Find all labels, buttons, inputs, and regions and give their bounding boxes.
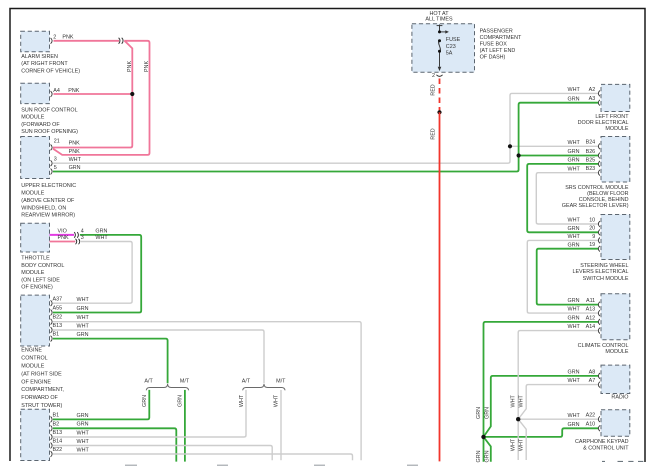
node pink junction: [130, 92, 134, 96]
wire WHT B23 to pin 10: [536, 173, 598, 224]
passenger compartment fuse box: [412, 24, 475, 72]
svg-text:GRN: GRN: [568, 149, 580, 155]
svg-text:GRN: GRN: [568, 226, 580, 232]
radio box: [601, 365, 630, 393]
wire VIO throttle body pin: [50, 234, 75, 236]
svg-text:(AT LEFT END: (AT LEFT END: [480, 48, 516, 54]
svg-text:CLIMATE CONTROL: CLIMATE CONTROL: [578, 343, 629, 349]
svg-text:5A: 5A: [446, 51, 453, 57]
connector symbol )) on alarm wire: [119, 38, 123, 44]
svg-text:WHT: WHT: [519, 394, 525, 407]
svg-text:B26: B26: [586, 149, 596, 155]
svg-text:GRN: GRN: [476, 407, 482, 419]
svg-text:GRN: GRN: [568, 96, 580, 102]
svg-text:GEAR SELECTOR LEVER): GEAR SELECTOR LEVER): [562, 203, 629, 209]
wire RED solid down to bottom: [439, 112, 441, 461]
svg-text:WHT: WHT: [511, 394, 517, 407]
svg-text:WINDSHIELD, ON: WINDSHIELD, ON: [21, 205, 66, 211]
svg-text:WHT: WHT: [568, 140, 581, 146]
svg-text:& CONTROL UNIT: & CONTROL UNIT: [583, 445, 629, 451]
svg-text:M/T: M/T: [180, 378, 190, 384]
svg-text:(AT RIGHT FRONT: (AT RIGHT FRONT: [21, 61, 68, 67]
svg-text:PNK: PNK: [127, 61, 133, 72]
svg-text:MODULE: MODULE: [605, 349, 628, 355]
svg-text:4: 4: [81, 228, 84, 234]
wire PNK throttle body pin: [50, 241, 76, 243]
svg-text:OF ENGINE): OF ENGINE): [21, 285, 53, 291]
svg-text:WHT: WHT: [511, 438, 517, 451]
svg-text:STRUT TOWER): STRUT TOWER): [21, 403, 62, 409]
svg-text:PNK: PNK: [69, 149, 80, 155]
svg-text:A8: A8: [589, 369, 596, 375]
svg-text:A4: A4: [53, 88, 60, 94]
wire GRN ECM-B pin B2 down to bottom module: [53, 428, 176, 461]
svg-text:(AT RIGHT SIDE: (AT RIGHT SIDE: [21, 371, 62, 377]
svg-text:B24: B24: [586, 140, 596, 146]
wire sunroof pin A4 to junction: [54, 93, 133, 95]
svg-text:A11: A11: [586, 298, 595, 304]
svg-text:GRN: GRN: [95, 228, 107, 234]
svg-text:B22: B22: [53, 447, 63, 453]
wire RED dashed from fuse: [439, 79, 441, 113]
svg-text:WHT: WHT: [77, 323, 90, 329]
wire WHT throttle pin 3 to ECM A37: [53, 242, 132, 304]
wire WHT A7 down merging into junction then out to bottom: [518, 385, 598, 460]
svg-text:(BELOW FLOOR: (BELOW FLOOR: [587, 191, 628, 197]
svg-text:WHT: WHT: [274, 394, 280, 407]
wire GRN A12 down to green junction and bottom: [484, 322, 599, 462]
svg-text:GRN: GRN: [568, 298, 580, 304]
fork 2 brace A/T M/T: [243, 384, 286, 390]
label steering wheel levers electrical switch module: [572, 263, 628, 282]
svg-text:GRN: GRN: [476, 450, 482, 462]
svg-text:GRN: GRN: [568, 422, 580, 428]
svg-text:UPPER ELECTRONIC: UPPER ELECTRONIC: [21, 183, 76, 189]
svg-text:SWITCH MODULE: SWITCH MODULE: [583, 276, 629, 282]
svg-text:ALL TIMES: ALL TIMES: [425, 17, 453, 23]
svg-text:GRN: GRN: [484, 450, 490, 462]
steering wheel levers electrical switch module box: [601, 215, 630, 260]
wire GRN fork1 A/T branch down to ECM-B pin B1: [53, 390, 149, 420]
svg-text:B2: B2: [53, 421, 60, 427]
svg-text:MODULE: MODULE: [21, 364, 44, 370]
wire WHT junction to carphone A22: [518, 418, 598, 420]
svg-text:FUSE BOX: FUSE BOX: [480, 42, 508, 48]
svg-text:A7: A7: [589, 378, 596, 384]
svg-text:ALARM SIREN: ALARM SIREN: [21, 54, 58, 60]
svg-text:OF DASH): OF DASH): [480, 55, 506, 61]
alarm siren box: [21, 31, 50, 52]
svg-text:MODULE: MODULE: [605, 126, 628, 132]
svg-text:GRN: GRN: [568, 242, 580, 248]
svg-text:A13: A13: [586, 307, 596, 313]
svg-text:MODULE: MODULE: [21, 270, 44, 276]
wire GRN ECM B1 to fork 1 stem: [53, 339, 168, 384]
label upper electronic module: [21, 183, 76, 219]
wire connector to PNK vertical 2 down to UEM second pin wire: [53, 41, 150, 155]
svg-text:GRN: GRN: [142, 395, 148, 407]
svg-text:A3: A3: [589, 96, 596, 102]
node WHT bus junction: [516, 417, 520, 421]
svg-text:PASSENGER: PASSENGER: [480, 29, 513, 35]
wire WHT ECM-B pin B14 down to bottom module: [53, 446, 272, 461]
connector symbol )) on VIO/GRN wire: [74, 232, 78, 238]
svg-text:WHT: WHT: [568, 324, 581, 330]
svg-text:WHT: WHT: [69, 157, 82, 163]
node GRN bus junction: [481, 435, 485, 439]
svg-text:B1: B1: [53, 331, 60, 337]
feed arrow right: [440, 31, 446, 33]
label sun roof control module: [21, 107, 78, 135]
label climate control module: [578, 343, 629, 355]
svg-text:WHT: WHT: [519, 438, 525, 451]
svg-text:VIO: VIO: [58, 228, 67, 234]
wire GRN A8 down merging into junction then out to bottom: [484, 376, 599, 462]
svg-text:B1: B1: [53, 413, 60, 419]
svg-text:GRN: GRN: [77, 413, 89, 419]
svg-text:MODULE: MODULE: [21, 115, 44, 121]
node GRN B26 junction: [517, 153, 521, 157]
svg-text:CONTROL: CONTROL: [21, 356, 47, 362]
wire GRN junction to carphone A10: [484, 428, 599, 437]
wire WHT ECM B13 to fork 2 stem: [53, 330, 264, 383]
svg-text:RED: RED: [431, 84, 437, 95]
svg-text:GRN: GRN: [568, 158, 580, 164]
label srs control module: [562, 185, 629, 209]
svg-text:3: 3: [81, 235, 84, 241]
bottom cut-off module box (right): [602, 460, 643, 462]
svg-text:WHT: WHT: [95, 235, 108, 241]
svg-text:GRN: GRN: [177, 395, 183, 407]
svg-text:2: 2: [53, 35, 56, 41]
svg-text:A12: A12: [586, 315, 596, 321]
svg-text:19: 19: [589, 242, 595, 248]
svg-text:WHT: WHT: [568, 218, 581, 224]
svg-text:A14: A14: [586, 324, 596, 330]
svg-text:GRN: GRN: [568, 370, 580, 376]
svg-text:CORNER OF VEHICLE): CORNER OF VEHICLE): [21, 68, 80, 74]
svg-text:(FORWARD OF: (FORWARD OF: [21, 122, 60, 128]
svg-text:COMPARTMENT,: COMPARTMENT,: [21, 387, 64, 393]
wire WHT pin 9 to climate A13: [527, 240, 598, 313]
svg-text:B22: B22: [53, 314, 63, 320]
carphone keypad & control unit box: [601, 410, 630, 436]
wire GRN pin 19 to climate A11: [537, 249, 599, 305]
connector symbol )) on PNK/WHT wire: [76, 239, 80, 245]
svg-text:WHT: WHT: [77, 297, 90, 303]
brackets right column: [598, 91, 600, 97]
svg-text:B14: B14: [53, 439, 63, 445]
label throttle body control module: [21, 256, 64, 291]
svg-text:WHT: WHT: [77, 430, 90, 436]
svg-text:A2: A2: [589, 87, 596, 93]
svg-text:CARPHONE KEYPAD: CARPHONE KEYPAD: [575, 439, 629, 445]
svg-text:(ON LEFT SIDE: (ON LEFT SIDE: [21, 277, 60, 283]
svg-text:A/T: A/T: [144, 378, 153, 384]
svg-text:GRN: GRN: [484, 407, 490, 419]
svg-text:A10: A10: [586, 422, 596, 428]
svg-text:M/T: M/T: [276, 378, 286, 384]
svg-text:REARVIEW MIRROR): REARVIEW MIRROR): [21, 213, 75, 219]
fork 1 brace A/T M/T: [146, 384, 189, 390]
label alarm siren: [21, 54, 80, 74]
engine control module connector B box: [21, 409, 50, 460]
svg-text:SUN ROOF OPENING): SUN ROOF OPENING): [21, 129, 78, 135]
label engine control module: [21, 348, 64, 409]
wire GRN B25 to pin 20: [527, 164, 598, 232]
svg-text:LEVERS ELECTRICAL: LEVERS ELECTRICAL: [572, 269, 628, 275]
sun roof control module box: [21, 83, 50, 103]
wire GRN B26 row: [519, 155, 599, 157]
upper electronic module box: [21, 137, 50, 179]
svg-text:PNK: PNK: [68, 88, 79, 94]
svg-text:A22: A22: [586, 413, 596, 419]
throttle body control module box: [21, 223, 50, 252]
label carphone keypad & control unit: [575, 439, 629, 452]
svg-text:RED: RED: [431, 128, 437, 139]
brackets left column: [51, 38, 53, 44]
wire WHT A14 down to white junction and bottom: [518, 331, 598, 460]
svg-text:B13: B13: [53, 323, 63, 329]
wire pin2 alarm siren to connector: [54, 40, 120, 42]
svg-text:WHT: WHT: [239, 394, 245, 407]
svg-text:B13: B13: [53, 430, 63, 436]
bottom cut-off module box (middle): [125, 464, 418, 466]
wire WHT B24 row: [510, 145, 599, 147]
wire WHT ECM-B pin B22 down to bottom module: [53, 454, 353, 460]
svg-text:C23: C23: [446, 44, 456, 50]
svg-text:GRN: GRN: [77, 306, 89, 312]
svg-text:A37: A37: [53, 297, 63, 303]
svg-text:WHT: WHT: [568, 307, 581, 313]
svg-text:ENGINE: ENGINE: [21, 348, 42, 354]
svg-text:10: 10: [589, 217, 595, 223]
svg-text:THROTTLE: THROTTLE: [21, 256, 50, 262]
svg-text:B23: B23: [586, 166, 596, 172]
wire GRN throttle pin 4 to ECM A55: [53, 235, 141, 313]
wire WHT UEM pin3 to B24 junction up to door module A2: [53, 93, 599, 163]
svg-text:GRN: GRN: [568, 316, 580, 322]
svg-text:WHT: WHT: [568, 234, 581, 240]
svg-text:FORWARD OF: FORWARD OF: [21, 395, 58, 401]
svg-text:SRS CONTROL MODULE: SRS CONTROL MODULE: [565, 185, 629, 191]
srs control module box: [601, 137, 630, 183]
svg-text:WHT: WHT: [568, 166, 581, 172]
svg-text:COMPARTMENT: COMPARTMENT: [480, 35, 522, 41]
svg-text:PNK: PNK: [62, 35, 73, 41]
fuse C23 element: [439, 41, 441, 52]
svg-text:WHT: WHT: [568, 378, 581, 384]
svg-text:BODY CONTROL: BODY CONTROL: [21, 263, 64, 269]
svg-text:WHT: WHT: [568, 87, 581, 93]
svg-text:SUN ROOF CONTROL: SUN ROOF CONTROL: [21, 107, 77, 113]
svg-text:3: 3: [54, 157, 57, 163]
svg-text:GRN: GRN: [69, 165, 81, 171]
wire GRN UEM pin5 to B26 junction up to door module A3: [53, 103, 599, 172]
svg-text:(ABOVE CENTER OF: (ABOVE CENTER OF: [21, 198, 75, 204]
wire WHT fork2 A/T branch down to ECM-B pin B13: [53, 390, 246, 437]
svg-text:CONSOLE, BEHIND: CONSOLE, BEHIND: [579, 197, 629, 203]
wire WHT ECM B22 right and down to bottom module: [53, 322, 361, 461]
svg-text:A55: A55: [53, 305, 63, 311]
wire WHT fork2 M/T branch down to bottom module: [280, 390, 282, 460]
node red junction: [437, 110, 441, 114]
label passenger compartment fuse box: [480, 29, 522, 61]
wire fuse to output arrow: [439, 51, 441, 67]
svg-text:2: 2: [432, 73, 435, 79]
svg-text:MODULE: MODULE: [21, 191, 44, 197]
engine control module connector A box: [21, 295, 50, 346]
climate control module box: [601, 294, 630, 340]
svg-text:5: 5: [54, 165, 57, 171]
svg-text:PNK: PNK: [58, 235, 69, 241]
svg-text:20: 20: [589, 226, 595, 232]
svg-text:WHT: WHT: [568, 413, 581, 419]
left front door electrical module box: [601, 84, 630, 111]
svg-text:GRN: GRN: [77, 422, 89, 428]
svg-text:PNK: PNK: [144, 61, 150, 72]
svg-text:B25: B25: [586, 157, 596, 163]
wire branch to PNK vertical 1 down to UEM pin 21: [53, 41, 132, 148]
pin 2 bracket under fuse box: [436, 75, 442, 77]
svg-text:WHT: WHT: [77, 439, 90, 445]
svg-text:PNK: PNK: [69, 141, 80, 147]
svg-text:OF ENGINE: OF ENGINE: [21, 379, 51, 385]
svg-text:WHT: WHT: [77, 315, 90, 321]
svg-text:WHT: WHT: [77, 447, 90, 453]
svg-text:RADIO: RADIO: [611, 394, 628, 400]
wire GRN fork1 M/T branch down to bottom module: [184, 390, 186, 462]
label left front door electrical module: [578, 114, 630, 132]
svg-text:GRN: GRN: [77, 332, 89, 338]
wire into fuse from top: [439, 25, 441, 32]
svg-text:9: 9: [592, 234, 595, 240]
svg-text:21: 21: [54, 139, 60, 145]
svg-text:A/T: A/T: [242, 378, 251, 384]
svg-text:FUSE: FUSE: [446, 37, 461, 43]
node WHT B24 junction: [508, 144, 512, 148]
